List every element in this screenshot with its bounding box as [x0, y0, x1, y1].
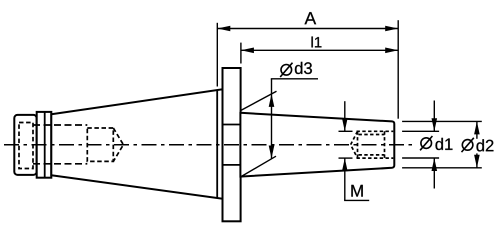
label M — [351, 185, 362, 197]
d3 arrow down — [269, 146, 275, 159]
thread end line (dashed) — [384, 131, 386, 158]
M / d1 hole extension tick top — [339, 130, 353, 132]
M / d1 hole extension tick bottom — [339, 157, 353, 159]
d2 extension line top — [402, 120, 482, 122]
M dimension line lower — [344, 158, 346, 200]
A and l1 shared extension line right — [397, 20, 399, 119]
thread start line (dashed) — [357, 131, 359, 158]
label d3 — [295, 62, 302, 74]
thread hole inner bottom (dashed) — [359, 154, 385, 156]
d1 dimension line lower — [433, 158, 435, 189]
d1 extension line bottom — [402, 157, 439, 159]
M dimension line upper — [344, 101, 346, 131]
d3 oblique extension line top — [240, 91, 277, 111]
label d3 diameter symbol — [281, 65, 292, 76]
d3 leader shelf — [271, 78, 318, 80]
collar — [37, 112, 52, 178]
label d1 diameter symbol — [421, 138, 432, 149]
dim l1 arrow left — [241, 48, 254, 54]
cone gauge line — [216, 90, 218, 198]
d1 extension line top — [402, 130, 439, 132]
d3 oblique extension line bottom — [240, 156, 276, 177]
d2 arrow up — [474, 121, 480, 134]
dim l1 line — [241, 49, 398, 51]
flange — [223, 68, 241, 221]
label d2 — [476, 139, 483, 151]
d1 arrow up — [432, 158, 438, 171]
centerline — [4, 144, 497, 146]
flange step line upper — [223, 124, 241, 126]
d2 extension line bottom — [402, 167, 482, 169]
end knob — [14, 115, 36, 175]
label d2 diameter symbol — [462, 140, 473, 151]
thread hole outer bottom (dashed) — [357, 157, 394, 159]
internal bore end box (dashed) — [87, 128, 113, 161]
label d2 knockout — [459, 140, 495, 153]
dim l1 extension line left — [240, 43, 242, 64]
d3 arrow up — [269, 94, 275, 107]
M arrow down — [342, 118, 348, 131]
collar divider — [44, 112, 46, 178]
d3 dimension line vertical — [271, 79, 273, 159]
left taper cone — [51, 89, 222, 198]
thread hole outer top (dashed) — [357, 130, 394, 132]
d1 arrow down — [432, 118, 438, 131]
d2 dimension line lower — [476, 153, 478, 167]
dim A arrow right — [385, 26, 398, 32]
dim A arrow left — [217, 26, 230, 32]
internal thread bore bottom line (dashed) — [33, 163, 87, 165]
M leader shelf — [344, 199, 369, 201]
d2 arrow down — [474, 155, 480, 168]
label A — [305, 12, 317, 24]
internal thread bore top line (dashed) — [33, 124, 87, 126]
label d1 — [435, 138, 442, 150]
right taper body — [240, 113, 394, 177]
d2 dimension line upper — [476, 121, 478, 138]
thread hole inner top (dashed) — [359, 134, 385, 136]
dim A extension line left — [216, 23, 218, 87]
internal bore drill point (dashed) — [113, 128, 123, 161]
thread hole point (dashed) — [351, 131, 358, 158]
flange step line lower — [223, 164, 241, 166]
label d1 knockout — [417, 136, 460, 152]
M arrow up — [342, 158, 348, 171]
d1 dimension line upper — [433, 101, 435, 132]
dim l1 arrow right — [385, 48, 398, 54]
label l1 — [312, 37, 313, 48]
dim A line — [217, 28, 398, 30]
internal thread recess (dashed) — [19, 123, 33, 169]
